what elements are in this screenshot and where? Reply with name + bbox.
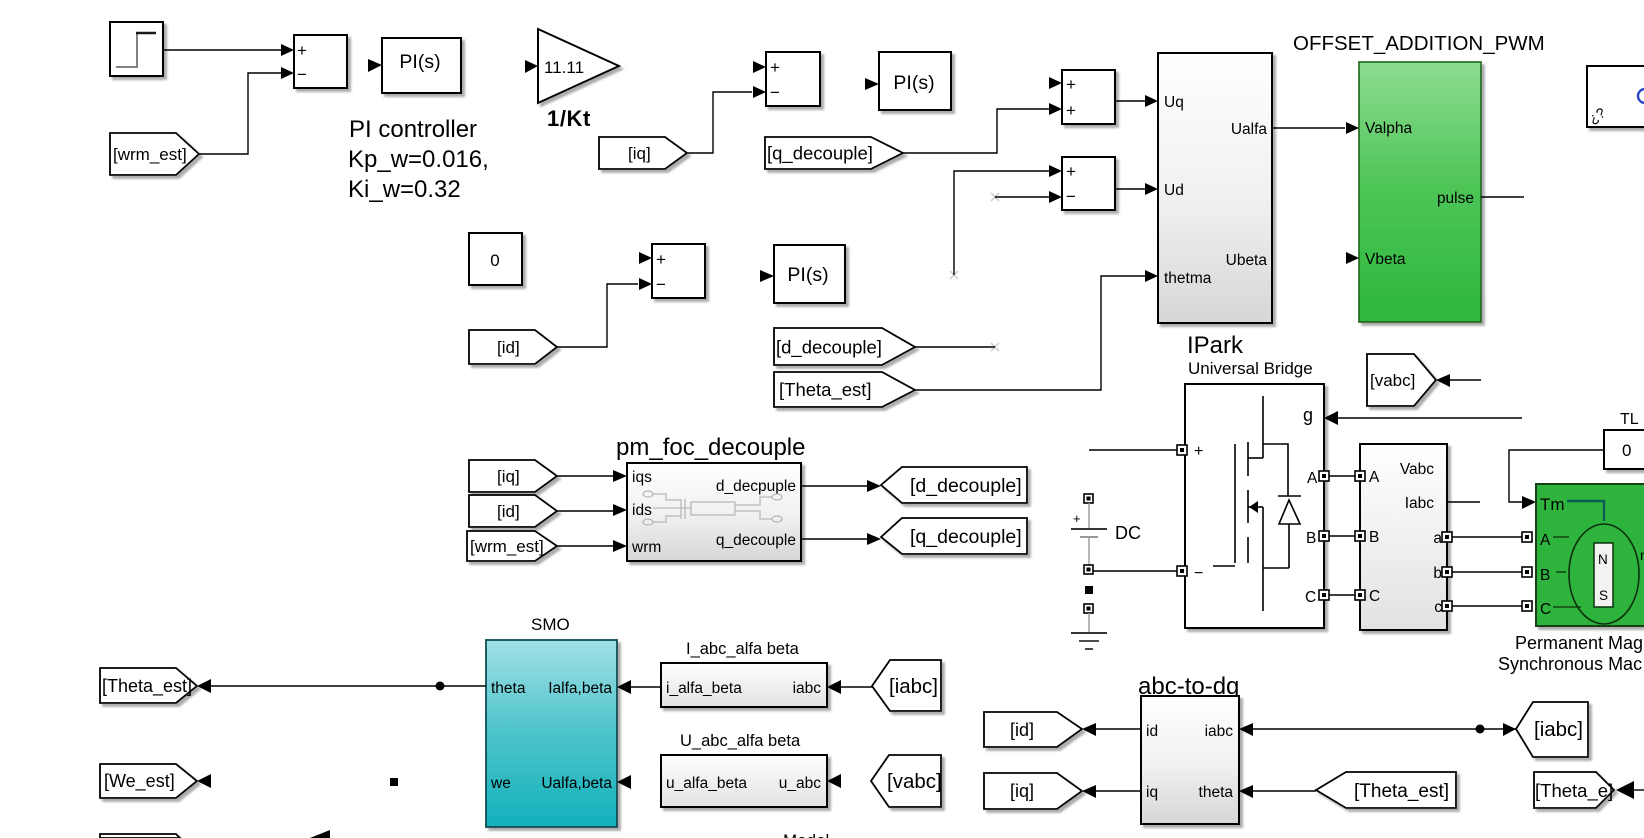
- junction square below DC: [1085, 586, 1093, 594]
- svg-text:[q_decouple]: [q_decouple]: [910, 526, 1022, 548]
- svg-text:I_abc_alfa beta: I_abc_alfa beta: [686, 640, 800, 658]
- svg-text:S: S: [1599, 588, 1608, 603]
- svg-text:C: C: [1540, 601, 1551, 618]
- svg-text:iabc: iabc: [1205, 723, 1234, 740]
- rotor ellipse: [1569, 524, 1639, 624]
- mosfet body arrow: [1249, 501, 1258, 513]
- svg-text:d_decpuple: d_decpuple: [716, 478, 796, 495]
- svg-text:Vabc: Vabc: [1400, 461, 1434, 478]
- constant block TL 0: [1604, 430, 1644, 469]
- svg-text:IPark: IPark: [1187, 332, 1244, 359]
- svg-text:q_decouple: q_decouple: [716, 532, 796, 549]
- from tag [wrm_est] to decouple: [467, 531, 557, 561]
- arrow into We_est tag (dangling): [197, 774, 211, 788]
- from tag [q_decouple]: [765, 137, 903, 169]
- wire i_alfa_beta to SMO: [631, 686, 661, 688]
- svg-text:iabc: iabc: [793, 680, 822, 697]
- svg-text:a: a: [1433, 530, 1442, 547]
- from tag [Theta_est] (to thetma): [774, 372, 915, 407]
- PI controller block PI2: [879, 52, 951, 110]
- svg-text:pulse: pulse: [1437, 190, 1474, 207]
- svg-text:C: C: [1305, 589, 1316, 606]
- step source block Step: [110, 22, 163, 76]
- sum block Sum4 (plus plus): [1062, 70, 1115, 124]
- goto tag [id] output: [984, 712, 1082, 747]
- svg-text:11.11: 11.11: [544, 58, 584, 77]
- svg-text:[iabc]: [iabc]: [889, 675, 938, 698]
- subsystem block OFFSET_ADDITION_PWM (green): [1359, 62, 1481, 322]
- dangling input arrow of PI1: [368, 59, 382, 72]
- wire Iabc output dangling: [1447, 501, 1480, 503]
- measurement block three-phase VI: [1360, 444, 1447, 630]
- svg-text:iq: iq: [1146, 784, 1158, 801]
- junction dot iabc: [1476, 725, 1485, 734]
- svg-text:m: m: [1640, 547, 1644, 563]
- wire Theta_est to thetma input: [915, 276, 1145, 390]
- svg-text:U_abc_alfa beta: U_abc_alfa beta: [680, 732, 801, 750]
- wire wrm_est to sum1 minus: [199, 73, 281, 154]
- wire id to sum3 minus: [557, 284, 638, 347]
- input arrow iabc: [827, 680, 841, 694]
- svg-text:[iabc]: [iabc]: [1534, 718, 1583, 741]
- wire Ualfa to Valpha: [1272, 127, 1345, 129]
- svg-text:Ki_w=0.32: Ki_w=0.32: [348, 176, 461, 203]
- transform block U_abc_alfa beta: [661, 755, 827, 807]
- svg-text:Uq: Uq: [1164, 94, 1184, 111]
- wire sum5 to Ud: [1115, 188, 1145, 190]
- estimator block SMO (teal): [486, 640, 617, 827]
- svg-text:DC: DC: [1115, 523, 1141, 543]
- from tag [wrm_est]: [110, 133, 199, 175]
- svg-text:[d_decouple]: [d_decouple]: [910, 475, 1022, 497]
- svg-text:−: −: [770, 83, 780, 102]
- svg-text:[iq]: [iq]: [497, 467, 520, 486]
- svg-text:[wrm_est]: [wrm_est]: [470, 537, 544, 556]
- PI controller block PI3: [774, 245, 845, 303]
- from tag [id] (d loop): [469, 330, 557, 364]
- subsystem block IPark (dq to alphabeta): [1158, 53, 1272, 323]
- svg-text:theta: theta: [1199, 784, 1234, 801]
- subsystem block pm_foc_decouple: [627, 463, 801, 561]
- arrow into Theta_est tag: [197, 679, 211, 693]
- wire iq to sum2 minus: [687, 92, 752, 153]
- sum block Sum2: [766, 52, 820, 106]
- dangling wire into sum5 plus: [954, 171, 1049, 275]
- svg-text:wrm: wrm: [631, 539, 661, 556]
- svg-text:B: B: [1540, 567, 1550, 584]
- svg-text:N: N: [1598, 552, 1608, 567]
- machine pads: [1522, 532, 1532, 611]
- dangling input arrow of gain: [525, 60, 538, 73]
- svg-text:0: 0: [1622, 441, 1631, 460]
- wire TL to Tm: [1509, 450, 1604, 502]
- svg-text:+: +: [1066, 162, 1076, 181]
- from tag [iabc] middle: [872, 660, 941, 711]
- svg-text:Ualfa,beta: Ualfa,beta: [541, 775, 612, 792]
- junction dot on theta wire: [436, 682, 445, 691]
- svg-text:−: −: [1066, 187, 1076, 206]
- wire theta from tag: [1253, 790, 1316, 792]
- DC source: [1084, 494, 1093, 503]
- svg-text:Ud: Ud: [1164, 182, 1184, 199]
- port pads bridge: [1177, 445, 1329, 600]
- input arrow Ualfa,beta (dangling): [617, 775, 631, 789]
- svg-text:0: 0: [490, 251, 499, 270]
- dangling input arrow of PI2: [865, 78, 879, 90]
- input arrow iabc of abc-to-dq: [1239, 723, 1253, 736]
- svg-text:[q_decouple]: [q_decouple]: [767, 143, 873, 165]
- MOSFET icon inside bridge: [1213, 396, 1301, 611]
- svg-text:theta: theta: [491, 680, 526, 697]
- svg-text:B: B: [1369, 529, 1379, 546]
- svg-text:c: c: [1434, 599, 1442, 616]
- goto tag [q_decouple]: [881, 518, 1027, 554]
- transform block I_abc_alfa beta: [661, 663, 827, 707]
- wire SMO theta to Theta_est: [211, 685, 486, 687]
- svg-text:[Theta_est]: [Theta_est]: [779, 379, 872, 401]
- from tag [id] to decouple: [469, 495, 557, 527]
- goto tag [Theta_e] bottom right: [1534, 772, 1614, 808]
- svg-text:[Theta_e]: [Theta_e]: [1535, 780, 1613, 802]
- magnet N S: [1594, 543, 1613, 607]
- scope block top right (clipped): [1587, 66, 1644, 127]
- input arrow u_abc (dangling): [827, 774, 841, 788]
- svg-text:[iq]: [iq]: [1010, 781, 1034, 801]
- svg-text:Tm: Tm: [1540, 495, 1565, 514]
- transform block abc-to-dq: [1141, 696, 1239, 824]
- svg-text:[vabc]: [vabc]: [887, 770, 942, 793]
- svg-text:+: +: [1066, 75, 1076, 94]
- wire pulse output dangling: [1481, 196, 1524, 198]
- svg-text:[id]: [id]: [497, 338, 520, 357]
- arrow into Theta_e tag: [1616, 781, 1634, 799]
- svg-text:u_abc: u_abc: [779, 775, 821, 792]
- svg-text:i_alfa_beta: i_alfa_beta: [666, 680, 742, 697]
- svg-text:[vabc]: [vabc]: [1370, 371, 1415, 390]
- input arrow theta of abc-to-dq: [1239, 785, 1253, 798]
- dangling input arrow of PI3: [760, 270, 774, 282]
- machine block PMSM (green, clipped right): [1536, 484, 1644, 626]
- svg-text:[id]: [id]: [497, 502, 520, 521]
- svg-text:A: A: [1307, 470, 1318, 487]
- wire DC plus to bridge: [1089, 449, 1177, 451]
- svg-text:PI(s): PI(s): [399, 51, 440, 73]
- svg-text:+: +: [1073, 511, 1081, 526]
- arrow into goto iabc right: [1503, 723, 1516, 736]
- svg-text:Ualfa: Ualfa: [1231, 121, 1268, 138]
- wire q_decouple to sum4 second plus: [903, 109, 1049, 153]
- wire DC minus to bridge: [1093, 570, 1177, 572]
- dangling wire into sum5 minus: [995, 196, 1049, 198]
- svg-text:u_alfa_beta: u_alfa_beta: [666, 775, 747, 792]
- svg-text:OFFSET_ADDITION_PWM: OFFSET_ADDITION_PWM: [1293, 32, 1545, 55]
- PI controller block PI1: [382, 38, 461, 93]
- svg-text:Vbeta: Vbeta: [1365, 251, 1406, 268]
- goto tag [vabc] upper: [1367, 354, 1436, 406]
- wire step to sum1: [163, 49, 282, 51]
- svg-text:[iq]: [iq]: [628, 144, 651, 163]
- partial arrowhead bottom: [310, 830, 330, 838]
- svg-text:C: C: [1369, 588, 1380, 605]
- svg-text:−: −: [1194, 565, 1203, 582]
- input arrows pm_foc_decouple: [613, 470, 627, 482]
- svg-text:Universal Bridge: Universal Bridge: [1188, 359, 1313, 378]
- ground symbol: [1088, 613, 1090, 632]
- svg-text:Kp_w=0.016,: Kp_w=0.016,: [348, 146, 489, 173]
- power block Universal Bridge: [1185, 384, 1324, 628]
- svg-text:g: g: [1303, 405, 1313, 425]
- input arrow Ialfa,beta: [617, 680, 631, 694]
- from tag [iq] (q loop): [599, 137, 687, 169]
- wire d_decouple dangling: [915, 346, 995, 348]
- gain block 1/Kt value 11.11: [538, 29, 619, 103]
- dangling input arrow sum4 first plus: [1049, 77, 1062, 89]
- blue partial glyph: [1638, 89, 1644, 103]
- partial tag bottom left (clipped): [100, 834, 180, 838]
- svg-text:TL: TL: [1620, 411, 1639, 428]
- ground port pad: [1084, 604, 1093, 613]
- svg-text:A: A: [1369, 469, 1380, 486]
- svg-text:[wrm_est]: [wrm_est]: [113, 145, 187, 164]
- svg-text:Model: Model: [783, 831, 829, 838]
- from tag [Theta_est] bottom: [1316, 772, 1456, 808]
- svg-text:we: we: [490, 775, 511, 792]
- svg-text:iqs: iqs: [632, 469, 652, 486]
- goto tag [We_est]: [100, 764, 197, 798]
- goto tag [d_decouple]: [881, 467, 1027, 503]
- svg-text:+: +: [770, 58, 780, 77]
- from tag [vabc] middle: [871, 755, 941, 807]
- svg-text:[d_decouple]: [d_decouple]: [776, 337, 882, 359]
- goto tag [Theta_est] left: [100, 668, 197, 703]
- pm_foc_decouple inner icon: [643, 491, 782, 525]
- sum block Sum3: [652, 244, 705, 298]
- svg-text:[We_est]: [We_est]: [104, 771, 175, 792]
- wire into g port (dangling right end): [1338, 417, 1522, 419]
- svg-text:+: +: [1194, 443, 1203, 460]
- svg-text:PI(s): PI(s): [893, 72, 934, 94]
- svg-text:Permanent Mag: Permanent Mag: [1515, 633, 1643, 653]
- svg-text:Valpha: Valpha: [1365, 120, 1412, 137]
- svg-text:[Theta_est]: [Theta_est]: [1354, 781, 1449, 802]
- svg-text:ids: ids: [632, 502, 652, 519]
- small square dot on we row: [390, 778, 398, 786]
- dangling input arrow sum3 plus: [639, 252, 652, 264]
- svg-text:[Theta_est]: [Theta_est]: [102, 676, 192, 697]
- svg-text:[id]: [id]: [1010, 720, 1034, 740]
- svg-text:+: +: [1066, 101, 1076, 120]
- from tag [iq] to decouple: [469, 460, 557, 492]
- svg-text:Ialfa,beta: Ialfa,beta: [548, 680, 612, 697]
- wire q_decouple to goto: [801, 538, 867, 540]
- step icon: [116, 33, 137, 67]
- svg-text:Iabc: Iabc: [1405, 495, 1435, 512]
- goto tag [iabc] right: [1516, 702, 1588, 757]
- long wire iabc: [1253, 728, 1516, 730]
- svg-text:B: B: [1306, 530, 1316, 547]
- wires abc to machine: [1452, 536, 1522, 538]
- sum block Sum1: [294, 35, 347, 88]
- svg-text:−: −: [656, 275, 666, 294]
- goto tag [iq] output: [984, 773, 1082, 809]
- wires bridge ABC to measurement: [1329, 475, 1355, 477]
- from tag [d_decouple]: [774, 328, 915, 365]
- svg-text:thetma: thetma: [1164, 270, 1212, 287]
- measurement pads: [1355, 471, 1452, 611]
- dangling input arrow sum2 plus: [753, 61, 766, 73]
- svg-text:A: A: [1540, 532, 1551, 549]
- svg-text:Synchronous Mac: Synchronous Mac: [1498, 654, 1642, 674]
- sum block Sum5 (plus minus): [1062, 157, 1115, 210]
- svg-text:PI(s): PI(s): [787, 264, 828, 286]
- dangle marks: [950, 193, 999, 351]
- svg-text:+: +: [297, 41, 307, 60]
- svg-text:SMO: SMO: [531, 615, 570, 634]
- arrow into vabc tag and dangling wire: [1436, 374, 1450, 387]
- svg-text:b: b: [1433, 565, 1442, 582]
- wire iabc from tag to block: [841, 686, 872, 688]
- svg-text:Ubeta: Ubeta: [1226, 252, 1268, 269]
- svg-text:+: +: [656, 250, 666, 269]
- svg-text:−: −: [297, 65, 307, 84]
- dangling input arrow Vbeta: [1346, 252, 1359, 264]
- constant block 0 (d reference): [469, 233, 522, 285]
- wire sum4 to Uq: [1115, 100, 1145, 102]
- wire d_decpuple to goto: [801, 485, 867, 487]
- svg-text:id: id: [1146, 723, 1158, 740]
- svg-text:1/Kt: 1/Kt: [547, 106, 591, 131]
- svg-text:pm_foc_decouple: pm_foc_decouple: [616, 434, 805, 461]
- svg-text:PI controller: PI controller: [349, 116, 477, 143]
